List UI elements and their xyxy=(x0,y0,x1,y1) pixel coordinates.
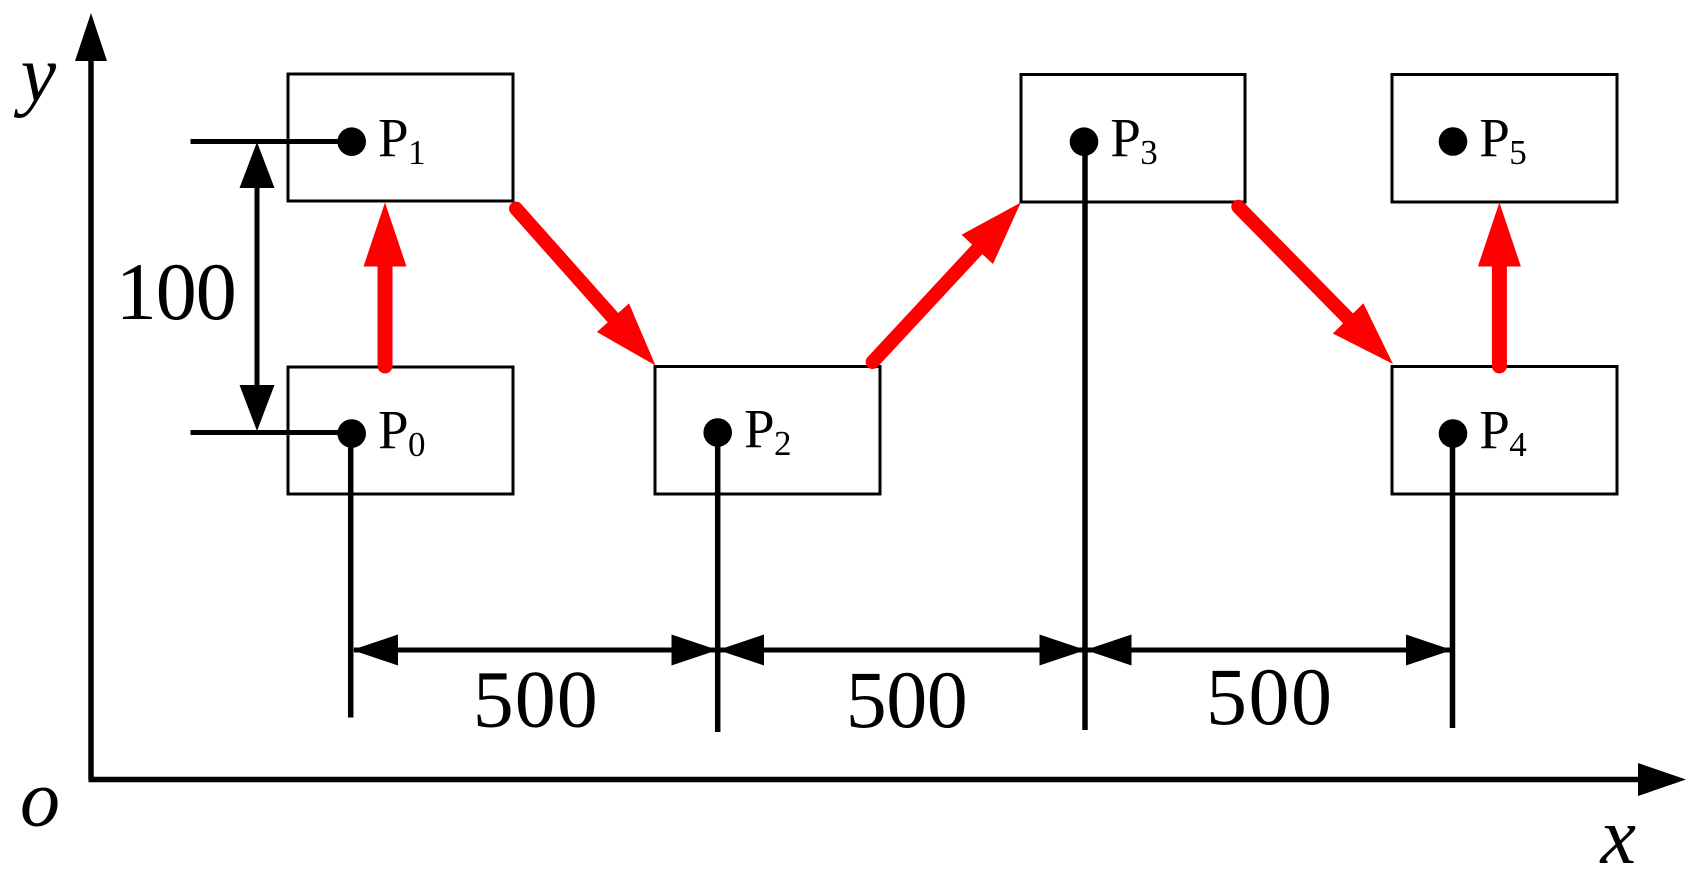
svg-text:5: 5 xyxy=(1509,133,1527,172)
svg-text:y: y xyxy=(14,31,57,119)
svg-text:3: 3 xyxy=(1140,133,1158,172)
svg-text:P: P xyxy=(378,107,409,168)
svg-text:P: P xyxy=(1110,107,1141,168)
svg-text:500: 500 xyxy=(473,654,598,745)
svg-text:500: 500 xyxy=(846,654,968,745)
svg-text:o: o xyxy=(20,756,60,844)
svg-text:500: 500 xyxy=(1206,651,1332,742)
svg-text:P: P xyxy=(378,399,409,460)
svg-text:0: 0 xyxy=(408,425,426,464)
svg-text:x: x xyxy=(1600,793,1637,879)
svg-text:2: 2 xyxy=(774,424,792,463)
svg-text:P: P xyxy=(1479,399,1510,460)
svg-text:P: P xyxy=(744,398,775,459)
svg-text:4: 4 xyxy=(1509,425,1527,464)
svg-text:1: 1 xyxy=(408,133,426,172)
svg-text:100: 100 xyxy=(116,246,237,337)
svg-text:P: P xyxy=(1479,107,1510,168)
